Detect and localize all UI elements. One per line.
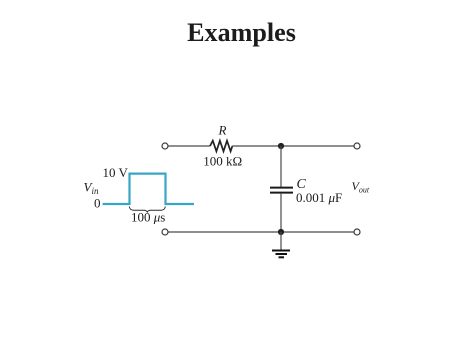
svg-text:0.001 μF: 0.001 μF xyxy=(296,190,342,205)
svg-text:100 μs: 100 μs xyxy=(131,210,165,225)
input waveform Vin pulse xyxy=(103,174,194,204)
node top junction xyxy=(278,143,284,149)
svg-text:Vout: Vout xyxy=(352,179,370,195)
wire resistor to output terminal xyxy=(232,145,354,147)
node output terminal top-right xyxy=(354,143,360,149)
svg-text:100 kΩ: 100 kΩ xyxy=(203,154,242,169)
brace under pulse xyxy=(129,207,165,213)
ground xyxy=(272,232,290,257)
capacitor C xyxy=(270,187,293,189)
node input terminal top-left xyxy=(162,143,168,149)
resistor R xyxy=(210,141,232,152)
svg-text:Examples: Examples xyxy=(187,18,296,47)
node output terminal bottom-right xyxy=(354,229,360,235)
wire capacitor to bottom junction xyxy=(280,193,282,232)
node bottom junction xyxy=(278,229,284,235)
svg-text:10 V: 10 V xyxy=(103,165,129,180)
svg-text:0: 0 xyxy=(94,196,101,211)
wire bottom xyxy=(168,231,354,233)
svg-text:Vin: Vin xyxy=(84,180,99,197)
svg-text:R: R xyxy=(218,123,227,138)
wire top-left to resistor xyxy=(168,145,210,147)
wire top junction to capacitor xyxy=(280,146,282,187)
node input terminal bottom-left xyxy=(162,229,168,235)
